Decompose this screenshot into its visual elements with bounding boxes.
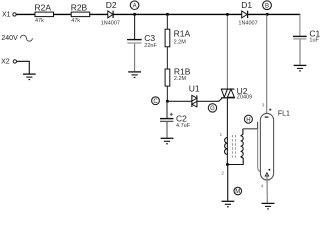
svg-text:47k: 47k <box>71 18 80 24</box>
wire triac down to transformer <box>226 98 228 164</box>
ground (C2) <box>161 138 174 144</box>
node H <box>244 115 252 123</box>
lamp bottom pin wire <box>266 176 268 203</box>
svg-text:47k: 47k <box>35 18 44 24</box>
wire node B down to lamp <box>266 14 268 117</box>
resistor R2B <box>71 2 90 23</box>
wire junction to ground <box>227 165 229 201</box>
wire C3 to ground <box>134 44 136 72</box>
svg-text:FL1: FL1 <box>278 110 290 117</box>
wire junction B to C1 corner <box>267 13 300 15</box>
capacitor C3 <box>127 33 157 49</box>
junction dot (transformer bottom) <box>226 163 229 166</box>
electrode top bar (inside tube) <box>265 116 269 118</box>
svg-text:1: 1 <box>220 132 223 137</box>
wire C2 to ground <box>166 122 168 138</box>
node M <box>234 187 242 195</box>
wire R1A junction to D1 <box>167 13 241 15</box>
wire to R1A <box>166 14 168 29</box>
wire D1 to junction B <box>248 13 267 15</box>
wire junction C to diac U1 <box>167 100 192 102</box>
svg-text:U1: U1 <box>189 84 200 94</box>
wire R2B to D2 <box>90 13 108 15</box>
svg-text:C3: C3 <box>144 33 155 43</box>
wire C1 to ground <box>299 39 301 64</box>
wire junction C down to C2 <box>166 101 168 118</box>
svg-text:C: C <box>153 99 158 105</box>
AC source 240V <box>1 35 32 42</box>
svg-text:D1: D1 <box>241 0 252 10</box>
svg-text:R1B: R1B <box>174 66 191 76</box>
ground (right bottom) <box>262 203 275 209</box>
svg-text:A: A <box>133 3 137 9</box>
svg-text:3: 3 <box>262 102 265 107</box>
transformer right winding <box>227 129 243 165</box>
wire R1A to R1B <box>166 47 168 69</box>
wire transformer to lamp (node H net) <box>243 122 258 129</box>
wire X2 to ground <box>17 61 30 73</box>
svg-text:1N4007: 1N4007 <box>101 21 120 27</box>
wire corner down to C1 <box>299 14 301 36</box>
capacitor C2 (polarized) <box>160 113 191 129</box>
svg-text:4: 4 <box>261 184 264 189</box>
terminal X1 <box>2 12 16 19</box>
svg-text:X1: X1 <box>2 12 11 19</box>
node A <box>130 1 139 10</box>
transformer core <box>232 135 235 158</box>
junction dot above R1A <box>166 13 169 16</box>
transformer left winding <box>225 138 228 155</box>
svg-text:B: B <box>265 3 269 9</box>
fluorescent lamp FL1 tube <box>260 110 290 180</box>
svg-text:2.2M: 2.2M <box>174 39 187 45</box>
svg-text:Z0409: Z0409 <box>237 94 253 100</box>
svg-text:H: H <box>246 117 250 123</box>
svg-text:R2A: R2A <box>35 2 52 12</box>
terminal X2 <box>1 59 17 66</box>
svg-text:2: 2 <box>222 171 225 176</box>
wire diac to triac gate <box>197 98 222 101</box>
junction dot (main wire / triac branch) <box>226 13 229 16</box>
wire R1B to node C junction <box>166 86 168 101</box>
wire main vertical to triac <box>226 14 228 88</box>
diode D2 <box>101 0 120 27</box>
wire R2A to R2B <box>54 13 72 15</box>
wire X1 to R2A <box>16 13 35 15</box>
electrode bottom (inside tube) <box>265 169 270 176</box>
wire junction A down to C3 <box>134 14 136 39</box>
ground (C1) <box>294 65 307 71</box>
resistor R2A <box>35 2 54 23</box>
svg-text:G: G <box>210 106 215 112</box>
ground (C3) <box>128 72 141 78</box>
triac U2 <box>221 86 252 101</box>
junction dot C <box>166 100 169 103</box>
svg-text:4.7uF: 4.7uF <box>176 123 191 129</box>
svg-text:240V: 240V <box>1 35 18 42</box>
junction dot B <box>266 13 269 16</box>
resistor R1B <box>165 66 191 86</box>
svg-text:22nF: 22nF <box>144 43 157 49</box>
lamp side wire (hairpin) <box>258 129 261 172</box>
svg-text:M: M <box>235 189 240 195</box>
ground (left bottom) <box>222 201 235 207</box>
svg-text:2.2M: 2.2M <box>174 76 187 82</box>
resistor R1A <box>165 29 190 47</box>
ground (X2) <box>23 74 36 80</box>
node C <box>152 97 160 105</box>
node G <box>208 104 216 112</box>
junction dot A <box>133 13 136 16</box>
svg-text:X2: X2 <box>1 59 10 66</box>
capacitor C1 <box>293 29 320 44</box>
svg-text:1uF: 1uF <box>309 37 319 43</box>
svg-text:1N4007: 1N4007 <box>238 20 257 26</box>
svg-text:C2: C2 <box>176 113 187 123</box>
svg-text:R2B: R2B <box>71 2 88 12</box>
electrode mark (+) top <box>269 108 272 111</box>
diac U1 <box>189 84 200 108</box>
svg-text:R1A: R1A <box>174 29 191 39</box>
wire D2 to R1A junction <box>113 13 167 15</box>
svg-text:D2: D2 <box>106 0 117 10</box>
diode D1 <box>238 0 257 26</box>
node B <box>263 1 272 10</box>
